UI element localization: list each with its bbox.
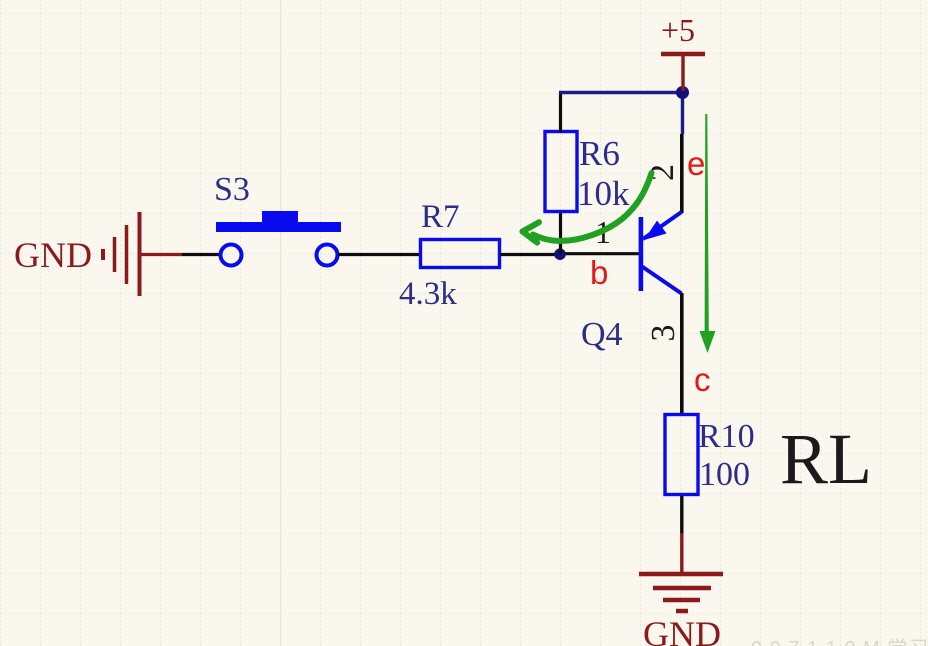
- wire (base node to Q4 base): [560, 252, 639, 255]
- power +5 symbol: [661, 54, 705, 91]
- svg-text:RL: RL: [780, 419, 872, 499]
- ground GND (left power port): [103, 212, 183, 296]
- svg-text:3: 3: [645, 325, 682, 342]
- transistor Q4 (PNP): [639, 212, 682, 294]
- grid major line: [280, 0, 282, 646]
- svg-text:GND: GND: [643, 614, 721, 646]
- svg-text:GND: GND: [14, 235, 92, 275]
- svg-text:10k: 10k: [577, 174, 630, 213]
- wire (collector down to R10): [680, 293, 684, 416]
- wire (+5 node down, blue segment): [681, 92, 684, 134]
- svg-text:S3: S3: [214, 171, 250, 208]
- resistor R10: [665, 415, 698, 495]
- wire (R6 top up to top rail): [559, 92, 562, 132]
- resistor R7: [421, 240, 500, 268]
- svg-text:e: e: [687, 145, 705, 182]
- annotation green straight arrow (collector current): [700, 114, 716, 353]
- wire (S3 right pin to R7): [338, 253, 421, 256]
- svg-text:0 0 7 1 1 0 M 学习帮: 0 0 7 1 1 0 M 学习帮: [751, 637, 928, 646]
- svg-text:R10: R10: [698, 418, 755, 455]
- resistor R6: [545, 132, 577, 212]
- wire (top rail, R6 to +5 node): [559, 91, 683, 94]
- svg-text:4.3k: 4.3k: [399, 276, 457, 312]
- junction node b: [554, 248, 566, 260]
- svg-text:R6: R6: [579, 134, 620, 173]
- switch S3: [216, 211, 341, 266]
- junction node at +5: [676, 86, 689, 99]
- svg-text:c: c: [694, 361, 711, 398]
- svg-text:100: 100: [699, 456, 750, 493]
- wire (emitter vertical, black segment): [680, 134, 684, 213]
- wire (GND stub to switch S3 left pin): [182, 253, 220, 256]
- svg-text:R7: R7: [421, 199, 460, 235]
- annotation green curved arrow (base current): [523, 173, 652, 243]
- wire (node up to R6 bottom): [559, 211, 562, 254]
- svg-text:Q4: Q4: [581, 316, 623, 353]
- wire (R7 to base node): [500, 253, 560, 256]
- svg-text:b: b: [590, 254, 608, 291]
- svg-text:+5: +5: [661, 12, 695, 48]
- ground GND (bottom power port): [639, 533, 723, 611]
- wire (R10 bottom to GND stub): [680, 495, 683, 534]
